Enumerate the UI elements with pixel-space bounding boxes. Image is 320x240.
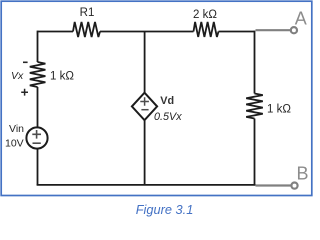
resistor R1 bbox=[73, 22, 100, 37]
resistor R3 1 kOhm (Vx) bbox=[30, 62, 46, 87]
svg-text:B: B bbox=[297, 164, 309, 184]
dependent source Vd (diamond) bbox=[132, 93, 157, 121]
value label 1 kOhm left bbox=[50, 70, 74, 82]
wire left-branch upper bbox=[37, 31, 39, 62]
svg-text:R1: R1 bbox=[80, 7, 95, 19]
svg-text:Vd: Vd bbox=[160, 95, 174, 107]
wire bottom bbox=[37, 184, 256, 186]
terminal B bbox=[256, 164, 309, 189]
svg-text:2 kΩ: 2 kΩ bbox=[193, 9, 217, 21]
svg-text:1 kΩ: 1 kΩ bbox=[267, 103, 291, 115]
label Vd bbox=[160, 95, 174, 107]
terminal A bbox=[256, 9, 307, 34]
value label 2 kOhm bbox=[193, 9, 217, 21]
label R1 bbox=[80, 7, 95, 19]
resistor R2 2 kOhm bbox=[194, 22, 219, 37]
wire left-branch lower bbox=[37, 149, 39, 185]
caption Figure 3.1 bbox=[136, 202, 194, 217]
source Vin circle bbox=[26, 127, 47, 148]
svg-text:Vx: Vx bbox=[11, 70, 24, 82]
svg-text:Vin: Vin bbox=[9, 123, 24, 135]
svg-text:10V: 10V bbox=[5, 138, 24, 150]
polarity minus (Vx) bbox=[23, 61, 28, 63]
wire right-branch upper bbox=[254, 31, 256, 94]
svg-text:A: A bbox=[295, 9, 307, 29]
wire top-left bbox=[38, 31, 74, 33]
node label Vx bbox=[11, 70, 24, 82]
value label 10 V bbox=[5, 138, 24, 150]
wire middle-branch lower bbox=[144, 120, 146, 185]
wire right-branch lower bbox=[254, 119, 256, 186]
svg-text:1 kΩ: 1 kΩ bbox=[50, 70, 74, 82]
value label 1 kOhm right bbox=[267, 103, 291, 115]
resistor R4 1 kOhm right bbox=[246, 94, 263, 119]
polarity plus (Vx) bbox=[21, 89, 28, 96]
wire middle-branch upper bbox=[144, 32, 146, 93]
svg-text:Figure 3.1: Figure 3.1 bbox=[136, 202, 194, 217]
wire top-right bbox=[219, 31, 255, 33]
value label 0.5Vx bbox=[154, 111, 182, 123]
wire left-branch middle bbox=[37, 87, 39, 127]
svg-text:0.5Vx: 0.5Vx bbox=[154, 111, 182, 123]
border frame (decorative) bbox=[1, 1, 312, 195]
wire top-middle bbox=[100, 31, 194, 33]
label Vin bbox=[9, 123, 24, 135]
